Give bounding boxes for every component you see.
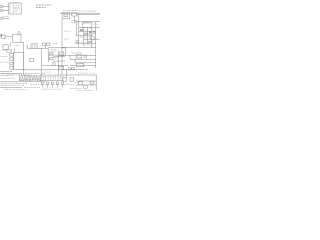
label left margin 2 bbox=[1, 61, 9, 64]
wire ctrl feed bbox=[14, 48, 16, 52]
wire drop x91 bbox=[91, 27, 93, 47]
label K3 bbox=[54, 57, 58, 60]
wire row y35 bbox=[75, 34, 92, 36]
title block pin numbers bbox=[9, 5, 10, 13]
wire mid horizontal bbox=[27, 47, 48, 49]
label capacitors bbox=[42, 88, 64, 91]
filter block bbox=[3, 45, 8, 50]
wire riser x66 bbox=[66, 69, 68, 77]
connector J1 bbox=[0, 5, 2, 7]
control box frame bbox=[14, 52, 24, 69]
wire riser x23 bbox=[23, 42, 25, 75]
title block frame bbox=[9, 3, 22, 14]
wire riser x45 upper bbox=[45, 46, 47, 49]
transformer T1 bbox=[31, 44, 37, 49]
terminal strip header bbox=[41, 75, 62, 78]
terminal strip X1 bbox=[40, 75, 63, 81]
label aux blocks bbox=[64, 83, 75, 86]
wire row y47 bbox=[62, 46, 96, 48]
diode D2 bbox=[72, 67, 75, 70]
pilot lamp DS2 bbox=[84, 55, 87, 58]
transistor Q1 bbox=[18, 32, 21, 35]
wire row y27 bbox=[79, 26, 100, 28]
label R1 value bbox=[80, 29, 88, 32]
table rule 1 bbox=[0, 81, 45, 83]
wire row y66 right bbox=[70, 65, 96, 67]
label left column 2 bbox=[64, 38, 69, 41]
wire J2 to title block bbox=[2, 9, 8, 11]
switch S1 bbox=[72, 13, 77, 16]
terminal box TB1 bbox=[48, 48, 65, 55]
label filter bbox=[14, 44, 20, 47]
label TB1 bbox=[51, 49, 59, 51]
resistor R5 bbox=[90, 81, 94, 84]
wire drop x87 bbox=[87, 27, 89, 44]
label BR1 bbox=[83, 22, 89, 25]
fuse block F2 bbox=[43, 43, 46, 46]
label above bottom bus bbox=[78, 72, 95, 75]
schematic notes line 1 bbox=[36, 4, 51, 7]
wire row y65 bbox=[42, 64, 68, 66]
label C1 value bbox=[85, 33, 92, 36]
aux block 2 bbox=[70, 78, 74, 81]
table row text bbox=[1, 83, 40, 86]
wire to right edge bbox=[77, 12, 100, 14]
wire tick x75 bbox=[74, 59, 76, 63]
label top right bbox=[63, 9, 78, 12]
label left margin 1 bbox=[1, 55, 8, 58]
wire riser x48 low bbox=[47, 55, 49, 62]
diode D1 bbox=[68, 67, 71, 70]
capacitor C4 bbox=[51, 82, 53, 88]
lamp DS1 bbox=[52, 63, 55, 66]
table rule 2 bbox=[0, 86, 40, 89]
input module bbox=[7, 49, 11, 52]
terminal left bbox=[0, 35, 2, 37]
wire row y63 right bbox=[75, 62, 96, 64]
wire row y31 bbox=[79, 30, 96, 32]
wire row y69 bbox=[62, 68, 88, 70]
wire J3 stub bbox=[2, 17, 9, 19]
wire riser x58 bbox=[57, 51, 59, 75]
wire drop x95 bbox=[95, 22, 97, 68]
label above strip bbox=[44, 71, 51, 74]
notes row 1 bbox=[1, 73, 46, 75]
wire riser x41 bbox=[41, 48, 43, 75]
wire row y55 right bbox=[64, 54, 96, 56]
wire row y57 bbox=[53, 56, 65, 58]
rectifier module BR1 bbox=[82, 22, 92, 27]
contact block K2 bbox=[49, 52, 53, 54]
label right bus bbox=[79, 10, 96, 13]
capacitor C3 bbox=[46, 82, 48, 88]
label left column 1 bbox=[64, 30, 71, 33]
wire drop x21 bbox=[20, 34, 22, 42]
resistor R2 bbox=[85, 33, 88, 35]
resistor R4 bbox=[88, 41, 91, 43]
wire left stub y71 bbox=[0, 71, 12, 73]
capacitor C5 bbox=[56, 82, 58, 88]
contact block K3 bbox=[49, 57, 53, 59]
wire top bus bbox=[60, 12, 79, 14]
table footer text bbox=[4, 88, 28, 91]
wire row y39 bbox=[83, 38, 99, 40]
connector J3 bbox=[0, 17, 2, 19]
aux block 1 bbox=[62, 78, 66, 82]
relay K1 contact bbox=[64, 14, 67, 17]
label top right corner bbox=[93, 23, 98, 26]
overload relay OL1 bbox=[78, 82, 82, 85]
auxiliary contact bbox=[30, 58, 34, 61]
label top of control box bbox=[1, 49, 7, 52]
label above TB1 bbox=[53, 42, 58, 45]
wire switch drop bbox=[73, 16, 75, 22]
wire right cluster top bbox=[76, 80, 96, 82]
relay K1 bbox=[62, 13, 70, 19]
wire drop x76 bbox=[75, 22, 77, 36]
fuse block F3 bbox=[47, 43, 50, 46]
motor M1 bbox=[91, 36, 95, 40]
wire second bus bbox=[74, 21, 100, 23]
terminal block column bbox=[10, 53, 13, 69]
label mid right bbox=[80, 36, 90, 39]
label F1 bbox=[1, 33, 5, 36]
wire row y43 bbox=[75, 42, 96, 44]
schematic notes line 2 bbox=[36, 6, 46, 9]
resistor R6 bbox=[93, 32, 95, 34]
wire bottom bus bbox=[64, 74, 97, 76]
wire tick x70 bbox=[69, 55, 71, 59]
wire row y61 bbox=[53, 60, 65, 62]
capacitor C2 bbox=[41, 82, 43, 88]
wire row y70 bbox=[20, 69, 62, 71]
label right mid bbox=[72, 52, 83, 55]
wire right cluster mid bbox=[76, 84, 96, 86]
capacitor C6 bbox=[61, 82, 63, 88]
capacitor C1 bbox=[89, 32, 91, 33]
connector J2 bbox=[0, 9, 2, 11]
switch S2 bbox=[60, 52, 64, 56]
wire right riser bbox=[95, 75, 97, 90]
wire neutral bus bbox=[77, 14, 100, 16]
notes row 2 bbox=[1, 76, 16, 79]
label R4 value bbox=[81, 41, 89, 44]
wire riser x62 low bbox=[61, 69, 63, 75]
resistor R1 bbox=[80, 29, 82, 31]
title block text bbox=[13, 5, 20, 12]
label under switch bbox=[72, 20, 77, 23]
wire stub x10 bbox=[10, 42, 12, 47]
wire F1 output bbox=[5, 36, 13, 38]
wire lower bus bbox=[13, 41, 24, 43]
relay coil K5 bbox=[76, 64, 84, 67]
junction box bbox=[59, 66, 64, 70]
wire drop x83 bbox=[82, 27, 84, 46]
wire J1 to title block bbox=[2, 5, 8, 7]
resistor R3 bbox=[76, 41, 79, 43]
wire Q1 rail bbox=[13, 33, 21, 35]
fuse F1 bbox=[1, 35, 5, 38]
contactor coil K4 bbox=[76, 55, 82, 58]
wire T1 input stub bbox=[26, 45, 28, 49]
label output cluster bbox=[70, 82, 93, 91]
wiring table block bbox=[19, 75, 42, 81]
motor M2 bbox=[83, 85, 87, 89]
wire left rail bbox=[61, 19, 63, 70]
label J3 bbox=[3, 15, 9, 18]
label under y43 bbox=[84, 44, 92, 47]
title block header bbox=[10, 2, 20, 5]
wire row y59 right bbox=[70, 58, 96, 60]
wire drop x79 bbox=[78, 13, 80, 47]
label left row bbox=[1, 72, 21, 75]
wire riser x12 bbox=[12, 34, 14, 42]
